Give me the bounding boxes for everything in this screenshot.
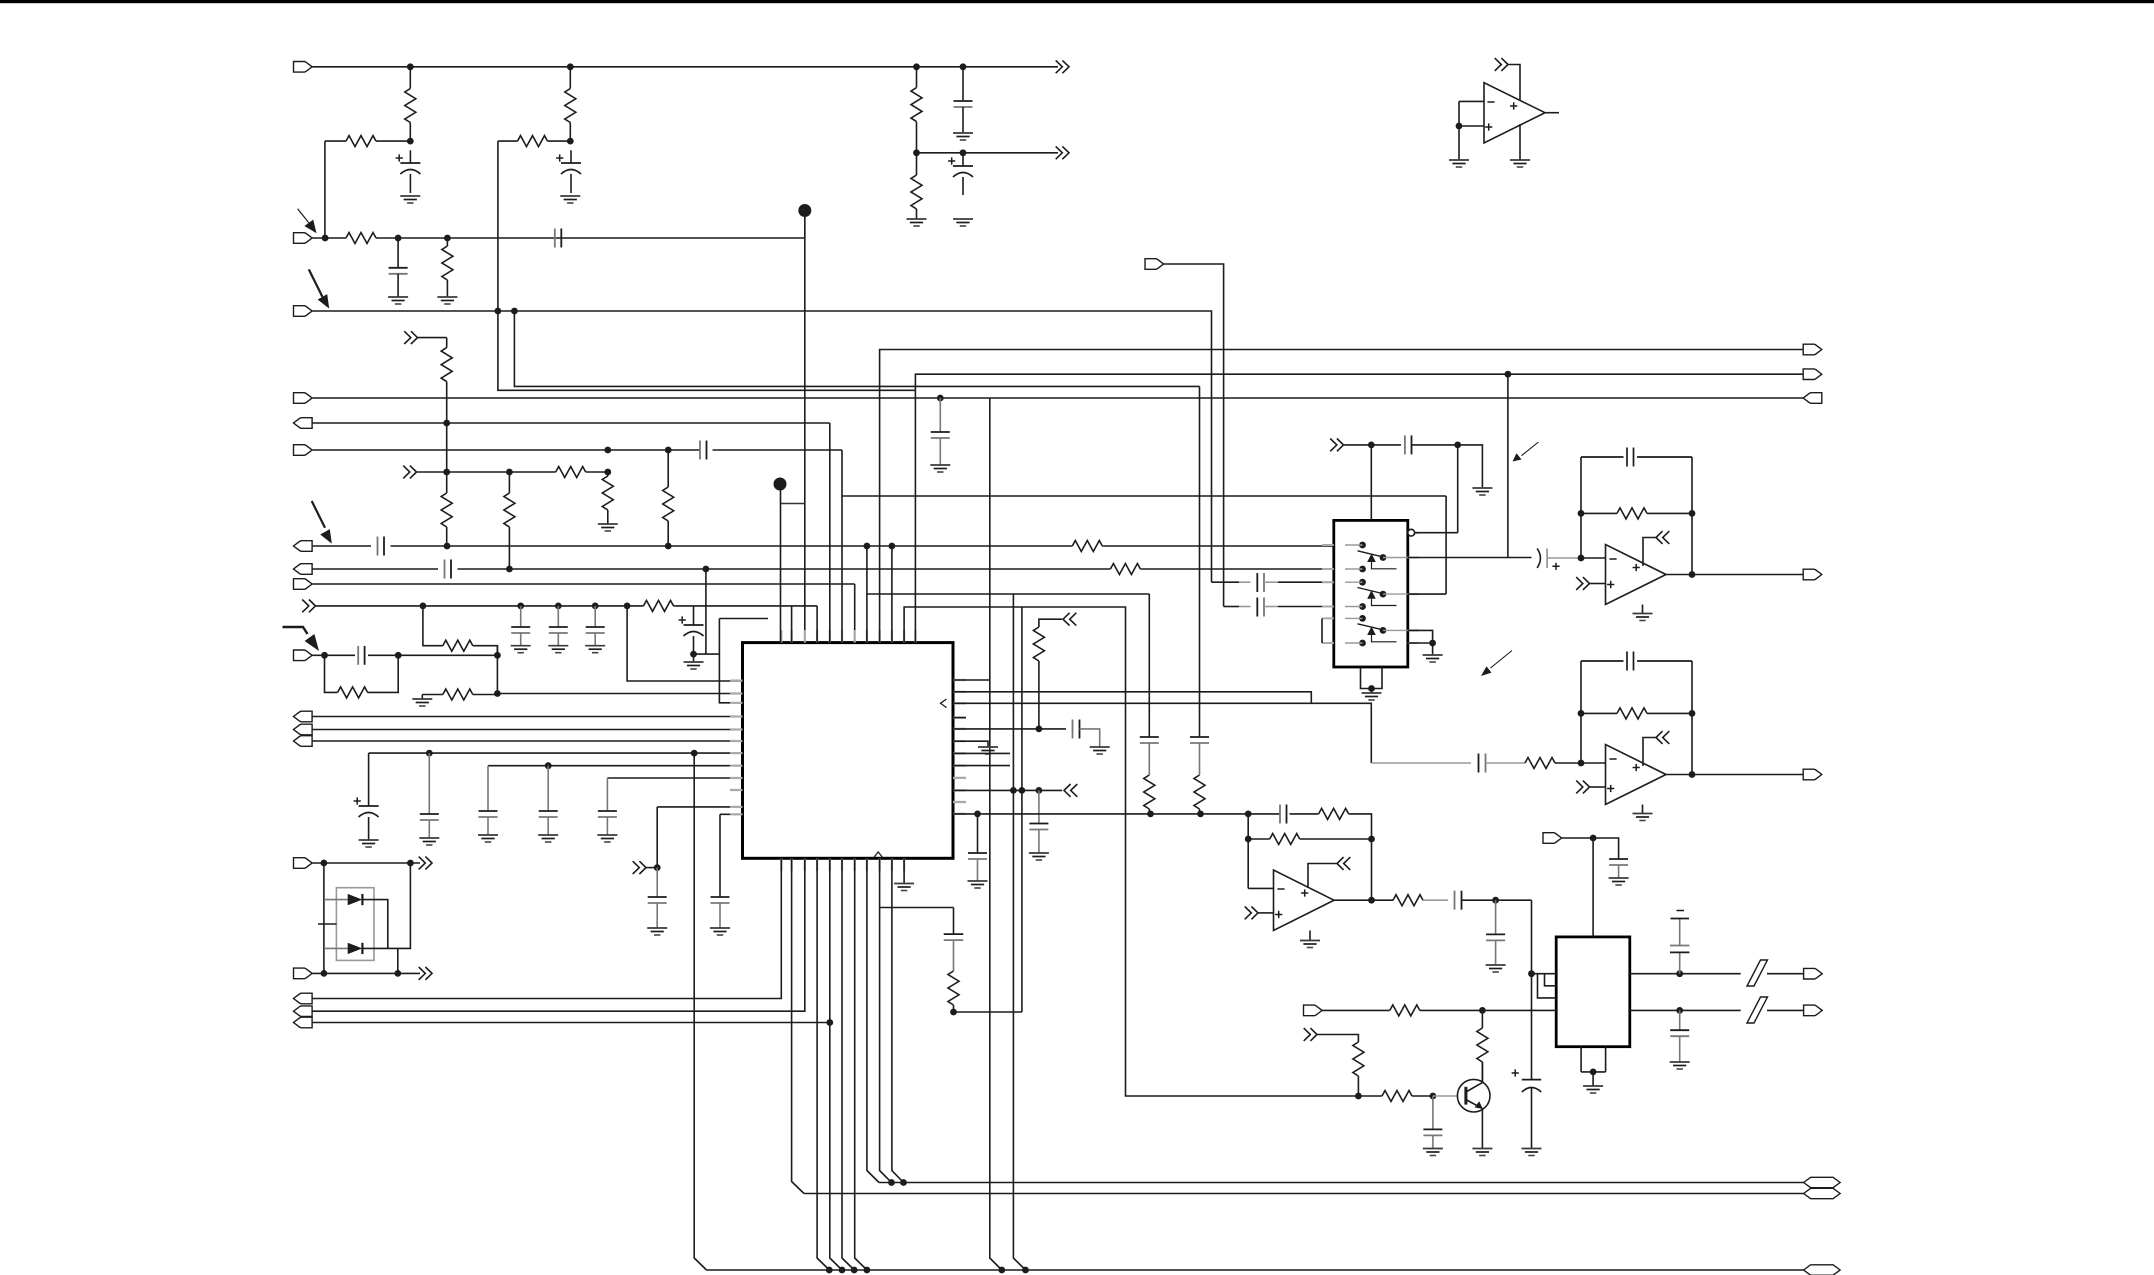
resistor R20 bbox=[1033, 619, 1062, 729]
wire net5 bbox=[514, 311, 1199, 386]
switch SW3 bbox=[1345, 615, 1408, 646]
capacitor C4 polarized bbox=[948, 153, 973, 195]
input connector J10 bbox=[294, 579, 313, 590]
wire net81 bbox=[1321, 618, 1323, 643]
node n22 bbox=[506, 566, 513, 573]
ground gnd37 bbox=[1522, 1149, 1542, 1156]
wire net108 bbox=[1371, 839, 1373, 900]
node n16 bbox=[506, 469, 513, 476]
wire bus drop pin829 bbox=[830, 858, 842, 1270]
switch SW2 bbox=[1345, 579, 1408, 610]
wire net62 bbox=[953, 692, 1311, 704]
resistor R25 bbox=[1525, 758, 1581, 769]
resistor R29 bbox=[1390, 1005, 1420, 1016]
ground gnd5 bbox=[388, 297, 408, 304]
resistor R9 bbox=[441, 493, 452, 527]
input connector J16 bbox=[294, 968, 313, 979]
wire net14 mux feed A bbox=[312, 545, 1334, 547]
wire riser pin829 top bbox=[829, 423, 831, 643]
mux U2 bottom gnd loop bbox=[1361, 667, 1383, 693]
off-page connector P11 bbox=[1330, 439, 1343, 452]
node n14 bbox=[665, 447, 672, 454]
wire net34 diode top bbox=[312, 862, 420, 864]
node n65 bbox=[1036, 787, 1043, 794]
capacitor C40 bbox=[1670, 1010, 1689, 1062]
capacitor C18 bbox=[479, 766, 498, 835]
IC U1 right pin stubs bbox=[953, 680, 966, 814]
annotation arrow A2 bbox=[309, 269, 329, 308]
ground gnd9 bbox=[548, 646, 568, 653]
ground gnd18 bbox=[710, 928, 730, 935]
op-amp U4 bbox=[1606, 545, 1667, 605]
connector J29 bbox=[1804, 1177, 1841, 1187]
node n74 bbox=[1505, 371, 1512, 378]
wire net70 vertical bus bbox=[1013, 594, 1025, 1270]
capacitor C15 bbox=[358, 646, 364, 665]
wire bus drop pin891 bbox=[892, 858, 904, 1182]
wire net112 U6 out bbox=[1334, 899, 1393, 901]
jumper JP2 bbox=[1747, 997, 1768, 1023]
input connector J28 bbox=[1304, 1005, 1323, 1016]
wire net3 bbox=[312, 237, 805, 239]
wire net33 bbox=[720, 814, 743, 897]
connector J31 bbox=[1804, 1265, 1841, 1275]
off-page connector P15 bbox=[1576, 781, 1589, 794]
IC U1 bottom notch bbox=[874, 852, 883, 858]
wire net12 bbox=[417, 471, 556, 473]
node n100 bbox=[998, 1267, 1005, 1274]
wire net38 bbox=[324, 947, 348, 949]
wire net36 diode bus left bbox=[323, 863, 325, 973]
node n78 bbox=[1689, 571, 1696, 578]
wire riser pin891 bbox=[891, 546, 893, 643]
wire net103 bbox=[1691, 661, 1693, 775]
capacitor C33 bbox=[1581, 448, 1692, 467]
output connector J24 bbox=[1803, 769, 1822, 780]
wire net128 bbox=[1318, 1035, 1359, 1043]
wire net29 bbox=[488, 765, 743, 767]
op-amp U3 top-right reference bbox=[1484, 83, 1545, 143]
off-page connector P8 bbox=[419, 967, 432, 980]
node n13 bbox=[604, 447, 611, 454]
ground gnd15 bbox=[538, 835, 558, 842]
off-page connector P1 bbox=[1056, 60, 1069, 73]
wire net55 bbox=[312, 858, 781, 998]
ground gnd27 bbox=[1510, 160, 1530, 167]
wire net127 bbox=[1322, 1009, 1556, 1011]
node n37 bbox=[654, 864, 661, 871]
power flag pf1 bbox=[1671, 911, 1690, 919]
IC U1 body bbox=[743, 643, 954, 859]
node n83 bbox=[1245, 836, 1252, 843]
output connector J8 bbox=[294, 541, 313, 552]
resistor R30 bbox=[1477, 1010, 1488, 1081]
wire net100 U4 out bbox=[1666, 574, 1803, 576]
node n81 bbox=[1689, 710, 1696, 717]
ground gnd11 bbox=[684, 654, 704, 669]
input connector J11 bbox=[294, 650, 313, 661]
ground gnd23 bbox=[1362, 693, 1382, 700]
top border bar bbox=[0, 0, 2154, 3]
node n85 bbox=[1368, 897, 1375, 904]
capacitor C12 bbox=[549, 606, 568, 646]
mux U2 inverter bubble bbox=[1408, 529, 1415, 536]
wire net95 bbox=[1581, 457, 1606, 558]
capacitor C10 bbox=[445, 560, 452, 579]
test point TP2 bbox=[774, 478, 805, 504]
wire net63 bbox=[953, 703, 1371, 763]
IC U1 bottom pin stubs bbox=[781, 858, 904, 871]
wire bus drop pin879 bbox=[880, 858, 892, 1182]
wire net39 bbox=[318, 923, 336, 925]
wire net15 mux feed B bbox=[312, 568, 1334, 570]
annotation arrow A1 bbox=[298, 209, 317, 234]
node n30 bbox=[321, 652, 328, 659]
node n21 bbox=[889, 543, 896, 550]
wire net124 dcdc out1 bbox=[1630, 973, 1804, 975]
capacitor C22 bbox=[711, 897, 730, 928]
off-page connector P6 bbox=[633, 861, 646, 874]
ground gnd31 bbox=[1486, 965, 1506, 972]
ground gnd25 bbox=[1423, 655, 1443, 662]
node n101 bbox=[1022, 1267, 1029, 1274]
wire riser pin817 top bbox=[694, 606, 818, 643]
node n29 bbox=[690, 651, 697, 658]
node n73 bbox=[1456, 123, 1463, 130]
input connector J20 bbox=[1145, 259, 1164, 270]
wire net110 U6 supply bbox=[1308, 864, 1337, 889]
capacitor C26 bbox=[1280, 805, 1287, 824]
node n102 bbox=[974, 811, 981, 818]
capacitor C1 polarized bbox=[396, 150, 421, 193]
output connector J23 bbox=[1803, 569, 1822, 580]
wire net61 vertical bus bbox=[990, 398, 1002, 1270]
resistor R3 bbox=[565, 67, 576, 141]
wire net50 bbox=[842, 450, 1446, 643]
node n90 bbox=[1676, 1007, 1683, 1014]
wire net109 bbox=[1259, 912, 1274, 914]
resistor R17 bbox=[325, 655, 399, 698]
connector J30 bbox=[1804, 1188, 1841, 1198]
wire net24 bbox=[497, 693, 742, 695]
input connector J25 bbox=[1543, 833, 1562, 844]
capacitor C14 polarized bbox=[679, 606, 704, 654]
ground gnd16 bbox=[597, 835, 617, 842]
capacitor C17 bbox=[420, 753, 439, 838]
node n20 bbox=[864, 543, 871, 550]
wire riser pin781 top bbox=[780, 487, 782, 644]
node n76 bbox=[1578, 510, 1585, 517]
ground gnd8 bbox=[511, 646, 531, 653]
capacitor C31 bbox=[1405, 435, 1458, 454]
wire riser pin866 bbox=[866, 546, 868, 643]
resistor R22 bbox=[1144, 775, 1155, 814]
wire net25 bbox=[312, 716, 742, 718]
wire net105 U5 vee bbox=[1642, 805, 1644, 814]
resistor R34 bbox=[911, 153, 922, 219]
wire net52 bbox=[880, 350, 1804, 644]
wire net107 bbox=[1248, 814, 1273, 889]
off-page connector P9 bbox=[1063, 613, 1076, 626]
capacitor C7 bbox=[931, 398, 950, 465]
capacitor C41 bbox=[1423, 1096, 1442, 1149]
ground gnd2 bbox=[560, 196, 580, 203]
wire net30 bbox=[607, 777, 742, 779]
wire net120 bbox=[1531, 900, 1533, 998]
capacitor C21 bbox=[648, 868, 667, 928]
wire net6 bbox=[498, 311, 916, 390]
wire net90 U3 supply bbox=[1509, 65, 1521, 101]
node n8 bbox=[444, 235, 451, 242]
input connector J3 bbox=[294, 306, 313, 317]
ground gnd28 bbox=[1633, 614, 1653, 621]
capacitor C20 bbox=[598, 778, 617, 835]
wire net42 bbox=[397, 948, 399, 973]
wire net82 mux enable bbox=[1370, 445, 1372, 521]
off-page connector P19 bbox=[1304, 1028, 1317, 1041]
wire net84 bbox=[1458, 445, 1483, 488]
wire net94 bbox=[1507, 374, 1509, 558]
resistor R2 bbox=[325, 136, 410, 238]
node n68 bbox=[1245, 811, 1252, 818]
output connector J14 bbox=[294, 736, 313, 747]
capacitor C37 bbox=[1486, 900, 1505, 965]
output connector J27 bbox=[1804, 1005, 1823, 1016]
wire net56 bbox=[312, 858, 805, 1011]
wire net40 bbox=[362, 900, 387, 949]
ground gnd24 bbox=[1472, 488, 1492, 495]
ground gnd19 bbox=[894, 884, 914, 891]
resistor R14 bbox=[1110, 564, 1140, 575]
wire net11 bbox=[312, 449, 842, 451]
capacitor C2 polarized bbox=[556, 150, 581, 193]
node n31 bbox=[395, 652, 402, 659]
wire bus drop pin791 bbox=[792, 858, 804, 1193]
node n2 bbox=[407, 138, 414, 145]
node n99 bbox=[864, 1267, 871, 1274]
resistor R11 bbox=[602, 472, 613, 524]
wire net92 U3 vee bbox=[1519, 124, 1521, 160]
input connector J15 bbox=[294, 858, 313, 869]
node n80 bbox=[1578, 710, 1585, 717]
output connector J19 bbox=[294, 1017, 313, 1028]
wire net102 bbox=[1590, 786, 1606, 788]
wire bus drop pin842 bbox=[842, 858, 854, 1270]
off-page connector P3 bbox=[404, 331, 417, 344]
wire net21 bbox=[719, 619, 768, 703]
wire net111 U6 vee bbox=[1309, 931, 1311, 941]
resistor R6 bbox=[346, 233, 376, 244]
node n36 bbox=[545, 762, 552, 769]
wire net72 LC drop A bbox=[1148, 594, 1150, 737]
node n92 bbox=[1355, 1093, 1362, 1100]
off-page connector P18 bbox=[1337, 857, 1350, 870]
annotation arrow A6 bbox=[1481, 651, 1512, 677]
node n87 bbox=[1528, 970, 1535, 977]
node n38 bbox=[321, 860, 328, 867]
capacitor C23 bbox=[944, 934, 964, 971]
node n12 bbox=[443, 420, 450, 427]
dcdc U7 body bbox=[1556, 937, 1630, 1047]
wire net87 bbox=[1408, 496, 1446, 594]
node n66 bbox=[1147, 811, 1154, 818]
ground gnd6 bbox=[930, 465, 950, 472]
capacitor C36 bbox=[1455, 891, 1532, 910]
node n60 bbox=[826, 1019, 833, 1026]
wire net54 bbox=[915, 374, 1803, 643]
node n75 bbox=[1578, 555, 1585, 562]
wire net19 bbox=[627, 606, 742, 681]
node n1a bbox=[407, 63, 414, 70]
off-page connector P5 bbox=[302, 600, 315, 613]
node n89 bbox=[1676, 970, 1683, 977]
node n11 bbox=[937, 395, 944, 402]
wire net53 bbox=[904, 607, 1359, 1096]
resistor R15 bbox=[644, 600, 674, 611]
node n7 bbox=[395, 235, 402, 242]
node n88 bbox=[1590, 835, 1597, 842]
wire bus2 bbox=[804, 1193, 1804, 1195]
node n17 bbox=[604, 469, 611, 476]
resistor R10 bbox=[504, 472, 515, 569]
wire riser pin791 top bbox=[791, 606, 793, 643]
wire net60 bbox=[953, 679, 990, 681]
wire bus drop pin817 bbox=[817, 858, 829, 1270]
resistor R5 bbox=[911, 67, 922, 153]
node n1b bbox=[567, 63, 574, 70]
ground gnd39 bbox=[437, 297, 457, 304]
capacitor C6 bbox=[555, 229, 562, 248]
off-page connector P17 bbox=[1245, 907, 1258, 920]
node n10 bbox=[511, 308, 518, 315]
capacitor C34 bbox=[1371, 754, 1525, 773]
jumper JP1 bbox=[1747, 960, 1768, 986]
output connector J6 bbox=[294, 418, 313, 429]
capacitor C28 bbox=[1190, 737, 1209, 775]
ground gnd33 bbox=[1670, 1062, 1690, 1069]
node n77 bbox=[1689, 510, 1696, 517]
wire net71 bbox=[953, 814, 1372, 839]
resistor R33 bbox=[442, 238, 453, 297]
wire net18 bias row bbox=[316, 605, 694, 607]
input connector J5 right side bbox=[1803, 393, 1822, 404]
wire net57 bbox=[312, 1022, 830, 1024]
node n91 bbox=[1479, 1007, 1486, 1014]
ground gnd34 bbox=[1583, 1086, 1603, 1093]
op-amp U6 bbox=[1274, 870, 1335, 931]
ground gnd10 bbox=[585, 646, 605, 653]
wire net17 bbox=[312, 584, 855, 643]
output connector J13 bbox=[294, 724, 313, 735]
wire net86 mux out1 bbox=[1408, 557, 1532, 559]
input connector J1 bbox=[294, 62, 313, 73]
wire net99 U4 vee bbox=[1642, 605, 1644, 614]
wire net9 bbox=[418, 337, 447, 339]
node n84 bbox=[1368, 836, 1375, 843]
wire net22 bbox=[312, 654, 497, 656]
node n95 bbox=[900, 1179, 907, 1186]
resistor R26 bbox=[1581, 708, 1692, 719]
node n71 bbox=[1454, 442, 1461, 449]
wire net16 bbox=[705, 569, 707, 654]
wire net65 bbox=[953, 728, 1066, 730]
wire net126 dcdc gnd bbox=[1581, 1047, 1606, 1086]
input connector J4 bbox=[294, 393, 313, 404]
node n25 bbox=[517, 603, 524, 610]
IC U1 left pin stubs bbox=[730, 681, 743, 815]
wire net1 top rail bbox=[312, 66, 1058, 68]
node n82 bbox=[1689, 771, 1696, 778]
resistor R31 bbox=[1353, 1042, 1364, 1096]
wire net132 bbox=[694, 753, 706, 1270]
resistor R28 bbox=[1393, 895, 1448, 906]
ground gnd3 bbox=[953, 133, 973, 140]
wire net32 bbox=[647, 867, 658, 869]
node n28 bbox=[624, 603, 631, 610]
wire net23 bbox=[496, 646, 498, 694]
ground gnd17 bbox=[647, 928, 667, 935]
resistor R12 bbox=[663, 450, 674, 546]
wire net96 bbox=[1590, 583, 1606, 585]
resistor R8 bbox=[556, 467, 586, 478]
output connector J17 bbox=[294, 993, 313, 1004]
wire net20 bbox=[694, 653, 720, 655]
resistor R18 bbox=[412, 689, 497, 706]
wire net73 LC drop B bbox=[1199, 386, 1201, 737]
ground gnd35 bbox=[1423, 1149, 1443, 1156]
wire net10 bbox=[312, 422, 830, 424]
ground gnd22 bbox=[1029, 853, 1049, 860]
resistor R7 bbox=[441, 338, 452, 423]
node n15 bbox=[443, 469, 450, 476]
wire bus drop pin854 bbox=[855, 858, 867, 1270]
resistor R4 bbox=[498, 136, 570, 311]
off-page connector P14 bbox=[1656, 531, 1669, 544]
ground gnd4 bbox=[953, 219, 973, 226]
diode D1a bbox=[348, 894, 363, 905]
node n26 bbox=[555, 603, 562, 610]
capacitor C16 polarized bbox=[354, 753, 379, 840]
node n96 bbox=[826, 1267, 833, 1274]
input connector J7 bbox=[294, 445, 313, 456]
wire net129 bbox=[1433, 1095, 1458, 1097]
off-page connector P13 bbox=[1576, 577, 1589, 590]
ground gnd30 bbox=[1300, 941, 1320, 948]
wire net83 bbox=[1344, 444, 1401, 446]
wire net101 bbox=[1581, 661, 1606, 763]
wire net123 dcdc top pin bbox=[1592, 838, 1594, 937]
capacitor C19 bbox=[539, 766, 558, 835]
wire net7 TP2 riser bbox=[804, 217, 806, 643]
wire net80 bbox=[1164, 264, 1224, 607]
node n93 bbox=[1430, 1093, 1437, 1100]
node n97 bbox=[839, 1267, 846, 1274]
wire net121 dcdc in pins bbox=[1532, 974, 1557, 998]
node n32 bbox=[494, 652, 501, 659]
ground gnd29 bbox=[1633, 814, 1653, 821]
annotation arrow A3 bbox=[312, 501, 332, 544]
wire net35 diode bottom bbox=[312, 972, 420, 974]
node n40 bbox=[321, 970, 328, 977]
wire net93 U3 out bbox=[1545, 112, 1559, 114]
ground gnd20 bbox=[1090, 747, 1110, 754]
wire net106 U5 out bbox=[1666, 774, 1803, 776]
ground gnd21 bbox=[978, 747, 998, 754]
wire pin904 gnd stub bbox=[903, 858, 905, 883]
mux U2 body bbox=[1334, 520, 1408, 667]
capacitor C9 bbox=[378, 537, 385, 556]
node n86 bbox=[1492, 897, 1499, 904]
